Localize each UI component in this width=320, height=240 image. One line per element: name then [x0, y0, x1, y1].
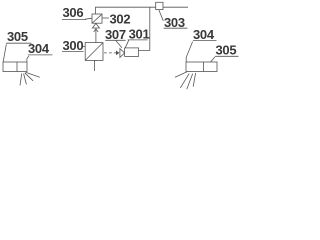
svg-text:301: 301	[129, 26, 150, 41]
svg-text:302: 302	[110, 12, 131, 27]
svg-text:304: 304	[28, 41, 50, 56]
svg-text:305: 305	[7, 29, 28, 44]
svg-text:306: 306	[63, 5, 84, 20]
svg-text:300: 300	[63, 38, 84, 53]
svg-text:304: 304	[193, 27, 215, 42]
svg-text:303: 303	[164, 15, 185, 30]
svg-text:307: 307	[105, 27, 126, 42]
svg-text:305: 305	[216, 42, 237, 57]
